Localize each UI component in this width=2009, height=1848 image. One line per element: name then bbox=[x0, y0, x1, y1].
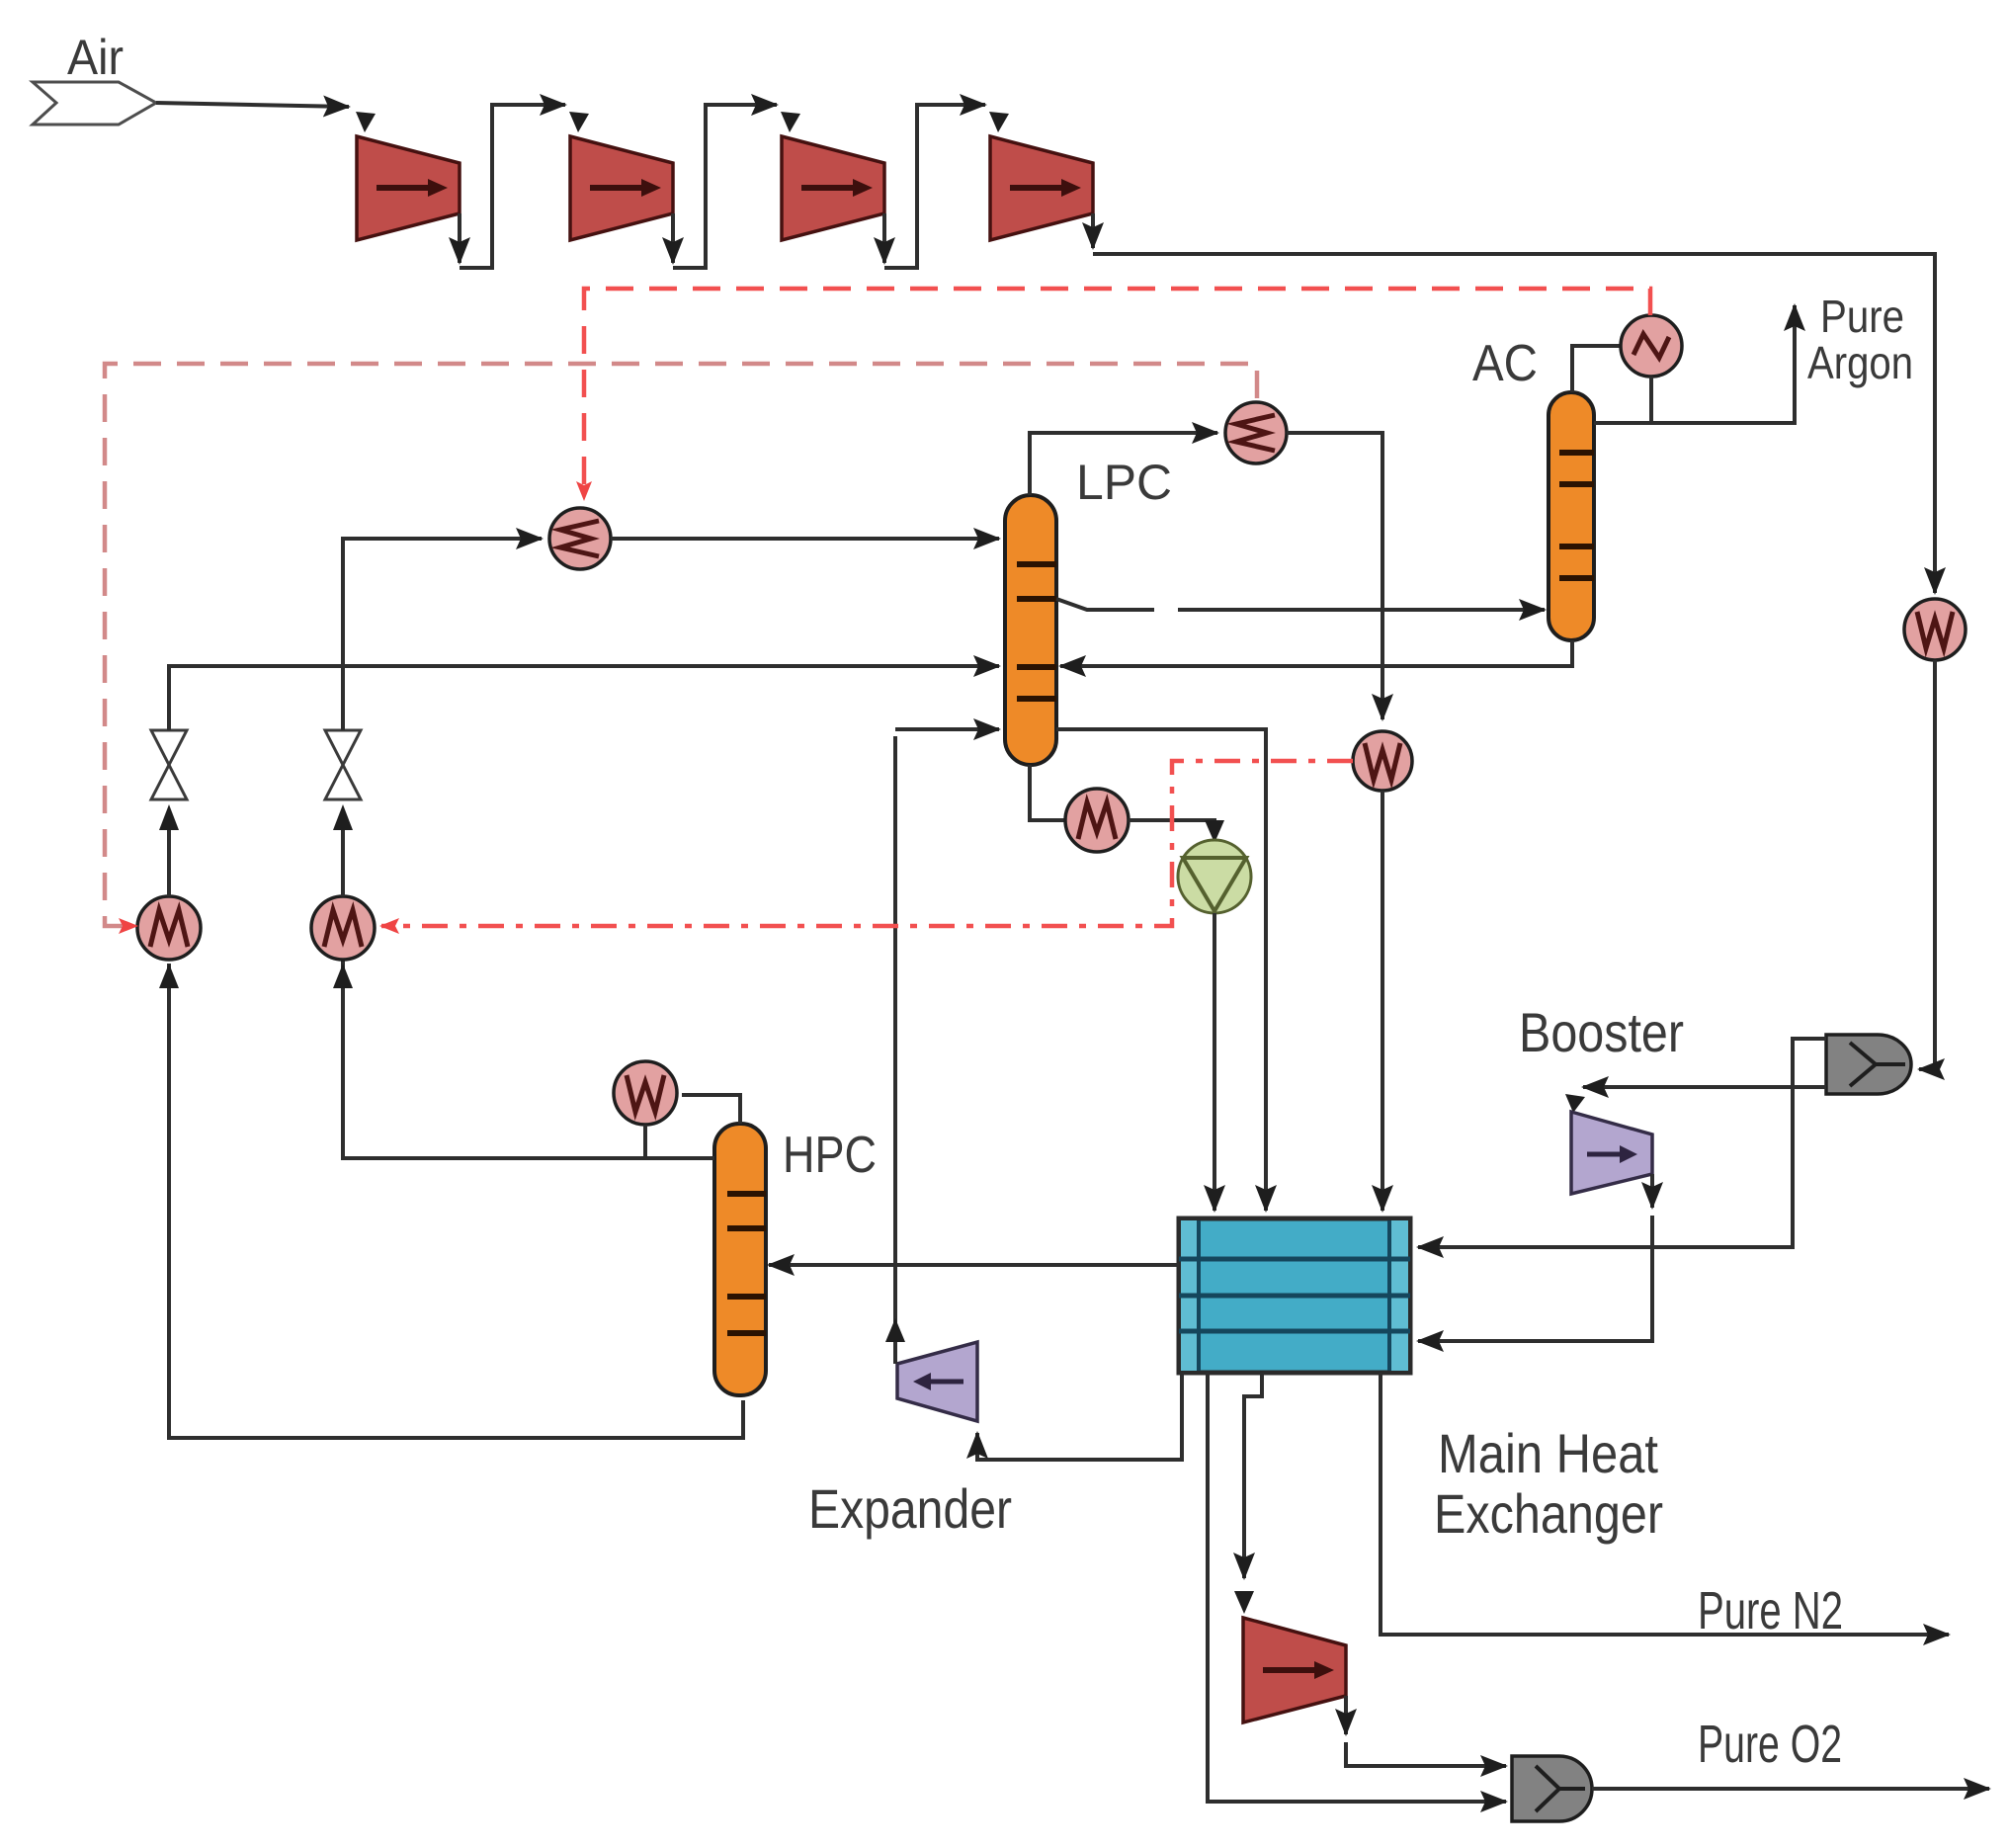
LPC column bbox=[1005, 495, 1056, 765]
wire LPC liquid draw to MHE top bbox=[1056, 729, 1266, 1211]
wire E4 to HPC feed line bbox=[643, 1125, 647, 1158]
wire P1 to MHE top bbox=[1213, 913, 1216, 1211]
arrow into K5 inlet bbox=[1234, 1591, 1254, 1614]
svg-text:Air: Air bbox=[67, 30, 124, 85]
valve V2 bbox=[325, 730, 361, 799]
red dashed line N2 loop bbox=[584, 289, 1650, 499]
arrow into booster inlet bbox=[1565, 1094, 1585, 1113]
booster compressor bbox=[1571, 1112, 1652, 1194]
heat exchanger E7 (N2 stream cooler) bbox=[1353, 731, 1412, 791]
wire E8 to pump P1 bbox=[1129, 820, 1214, 824]
wire K3 to K4 bbox=[882, 213, 886, 263]
valve V1 bbox=[151, 730, 187, 799]
wire E3 to LPC top feed bbox=[611, 537, 999, 541]
wire MHE bottom to expander feed bbox=[977, 1373, 1182, 1460]
wire AC overhead to condenser E9 bbox=[1572, 346, 1621, 392]
wire E9 return to argon line bbox=[1649, 377, 1653, 423]
separator S2 bbox=[1512, 1756, 1592, 1821]
arrow into K4 inlet bbox=[989, 112, 1009, 132]
main heat exchanger MHE bbox=[1179, 1218, 1410, 1373]
red dash-dot line to E7 bbox=[381, 761, 1353, 926]
air inlet symbol bbox=[33, 82, 156, 125]
svg-text:Exchanger: Exchanger bbox=[1434, 1482, 1663, 1545]
wire MHE left outlet to HPC bbox=[769, 1263, 1179, 1267]
wire K4 outlet to right header bbox=[1091, 213, 1095, 248]
wire S1 stubs to downcomer bbox=[1418, 1039, 1826, 1247]
wire expander outlet to LPC feed bbox=[893, 736, 897, 1364]
svg-text:Pure: Pure bbox=[1820, 291, 1904, 342]
svg-text:LPC: LPC bbox=[1076, 455, 1172, 510]
wire E2 to valve V2 bbox=[341, 828, 345, 896]
wire E5 to separator S1 bbox=[1919, 660, 1935, 1069]
wire argon product bbox=[1594, 305, 1795, 423]
compressor K2 bbox=[570, 136, 673, 240]
wire K1 to K2 bbox=[458, 213, 461, 263]
product compressor K5 bbox=[1243, 1618, 1346, 1722]
svg-text:Argon: Argon bbox=[1807, 337, 1913, 388]
wire V2 to heat exchanger E3 bbox=[343, 539, 542, 730]
wire V1 to LPC mid feed bbox=[169, 666, 999, 730]
compressor K3 bbox=[782, 136, 884, 240]
heat exchanger E6 (N2 reheater) bbox=[1225, 402, 1287, 463]
pump P1 bbox=[1178, 840, 1251, 913]
svg-text:Pure N2: Pure N2 bbox=[1698, 1581, 1843, 1640]
arrow into K2 inlet bbox=[569, 112, 589, 132]
heat exchanger E9 (argon condenser) bbox=[1621, 315, 1682, 377]
wire AC bottoms to LPC bbox=[1060, 640, 1572, 666]
wire air feed to compressor K1 bbox=[156, 103, 349, 107]
wire LPC overhead to heat exchanger E6 bbox=[1030, 433, 1217, 495]
arrow into K3 inlet bbox=[781, 112, 800, 132]
wire E6 to heat exchanger E7 and MHE bbox=[1287, 433, 1382, 719]
svg-text:Expander: Expander bbox=[808, 1477, 1012, 1540]
wire MHE bottom liquid O2 to separator S2 bbox=[1208, 1373, 1506, 1802]
arrow up into heat exchanger E2 bbox=[333, 964, 353, 988]
heat exchanger E4 (HPC condenser) bbox=[614, 1061, 677, 1125]
svg-text:HPC: HPC bbox=[783, 1127, 877, 1184]
wire S2 to pure O2 outlet bbox=[1592, 1787, 1989, 1791]
svg-text:Booster: Booster bbox=[1519, 1001, 1684, 1063]
wire E7 to MHE top bbox=[1381, 791, 1384, 1211]
svg-text:AC: AC bbox=[1472, 335, 1538, 392]
heat exchanger E1 (left subcooler) bbox=[137, 896, 201, 960]
expander bbox=[897, 1342, 977, 1421]
heat exchanger E2 (right subcooler) bbox=[311, 896, 375, 960]
arrow into K1 inlet bbox=[356, 112, 376, 132]
wire E1 to valve V1 bbox=[167, 828, 171, 896]
compressor K4 bbox=[990, 136, 1093, 240]
arrow up into heat exchanger E1 bbox=[159, 964, 179, 988]
HPC column bbox=[714, 1124, 766, 1395]
wire HPC overhead to condenser E4 bbox=[682, 1095, 740, 1124]
separator S1 bbox=[1826, 1035, 1911, 1094]
svg-text:Pure O2: Pure O2 bbox=[1698, 1715, 1842, 1774]
AC column bbox=[1549, 392, 1594, 640]
wire MHE bottom to pure N2 outlet bbox=[1381, 1373, 1949, 1635]
wire S1 to booster suction bbox=[1583, 1085, 1826, 1089]
compressor K1 bbox=[357, 136, 460, 240]
wire LPC vapor draw to AC (with gap) bbox=[1056, 599, 1154, 610]
wire LPC bottoms to reboiler E8 bbox=[1030, 765, 1065, 820]
svg-text:Main Heat: Main Heat bbox=[1438, 1422, 1658, 1484]
wire K2 to K3 bbox=[671, 213, 675, 263]
red dashed line air loop bbox=[105, 364, 1257, 926]
wire HPC reflux feed line bbox=[343, 960, 714, 1158]
heat exchanger E8 (LPC reboiler) bbox=[1065, 789, 1129, 852]
heat exchanger E5 (right header cooler) bbox=[1904, 599, 1966, 660]
heat exchanger E3 (LPC top feed cooler) bbox=[549, 508, 611, 569]
wire HPC bottoms to left riser bbox=[169, 964, 743, 1438]
wire MHE bottom N2 to product compressor K5 bbox=[1244, 1373, 1262, 1578]
wire K5 outlet to separator S2 bbox=[1344, 1696, 1348, 1734]
wire booster outlet to MHE bbox=[1650, 1174, 1654, 1208]
